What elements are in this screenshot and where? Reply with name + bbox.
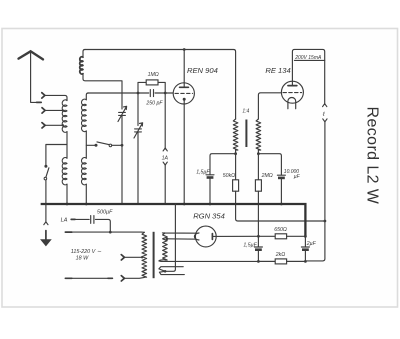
anode bar U3 (211, 234, 213, 240)
wire grid RC left riser (138, 82, 146, 93)
wire T1 secondary bottom to C5 (258, 154, 281, 175)
ground (45, 231, 47, 240)
svg-text:RE 134: RE 134 (265, 66, 290, 75)
resistor R5 2k bias (258, 260, 306, 262)
resistor R4 650 ohm (258, 235, 305, 237)
wire fuse to chassis rail (164, 165, 166, 204)
diode U3 RGN 354 rectifier (195, 226, 216, 247)
capacitor C3 250pF grid cap (150, 90, 153, 97)
wire HT secondary top to rectifier filament (162, 232, 199, 234)
wire R2 bottom to speaker return (236, 191, 326, 221)
grid coil L2 lower section (82, 158, 87, 185)
transformer T1 primary winding (233, 119, 238, 150)
resistor R2 50k (233, 180, 239, 191)
wire mains lead 1 (65, 231, 141, 233)
wire LA lead (71, 218, 89, 220)
transformer T2 primary winding (142, 232, 147, 277)
svg-text:1,5µF: 1,5µF (243, 242, 257, 248)
wire antenna coil mid-tap to band switch S1 (46, 145, 67, 167)
wire speaker return (306, 122, 325, 261)
wire U1 cathode to chassis rail (183, 99, 185, 204)
wire U2 anode to speaker feed (292, 49, 324, 103)
HT winding tap (166, 238, 169, 241)
svg-text:1:4: 1:4 (242, 109, 249, 115)
wire tap to rectifier filament (167, 238, 199, 240)
wire switch S2 to node (112, 144, 122, 146)
wire grid coil bottom to chassis rail (85, 184, 87, 204)
wire antenna coil middle (66, 132, 68, 159)
wire grid coil mid-tap to band switch S2 (86, 144, 96, 146)
wire U1 anode to HT rail (183, 50, 185, 88)
svg-text:Record L2 W: Record L2 W (364, 107, 381, 205)
transformer T1 core (245, 120, 247, 148)
variable capacitor C1 (reaction) (119, 112, 126, 115)
svg-text:RGN 354: RGN 354 (193, 212, 225, 221)
wire feedback coil top to anode rail (83, 50, 85, 57)
wire feedback coil bottom to reaction cap line (83, 74, 122, 109)
filament U3 (194, 233, 199, 240)
wire tap1 to antenna coil top (45, 95, 67, 100)
capacitor C5 10000pF electrolytic (277, 174, 285, 176)
band switch S2 (95, 144, 98, 147)
wire R3 bottom to B+ node (257, 191, 259, 236)
wire tap2 to primary bottom (124, 276, 144, 279)
wire C5 to chassis rail (280, 179, 282, 204)
svg-text:1MΩ: 1MΩ (148, 72, 159, 78)
wire HT anode rail (85, 50, 236, 120)
transformer T2 filament winding (159, 267, 183, 272)
earth connector break (44, 222, 48, 225)
wire filament centre tap to chassis (165, 204, 175, 271)
wire T1 primary bottom to C4 (210, 154, 236, 175)
wire tap2 to antenna coil (45, 109, 63, 111)
grid U1 (dashed) (175, 92, 193, 94)
wire tap3 to antenna coil (45, 124, 63, 126)
wire rail to earth (45, 204, 47, 222)
op-amp U1 REN 904 triode (173, 83, 194, 104)
anode bar U2 (288, 85, 297, 87)
anode bar U1 (180, 86, 189, 88)
resistor R1 1M grid leak (146, 80, 158, 85)
wire primary top (141, 231, 144, 233)
wire grid RC right riser (158, 82, 165, 93)
svg-text:250 pF: 250 pF (145, 100, 163, 106)
wire T1 primary bottom node (235, 150, 237, 180)
wire antenna coil bottom to chassis rail (66, 184, 68, 204)
wire C6 to mains lead (95, 219, 110, 232)
capacitor C6 500pF (91, 216, 94, 224)
svg-text:650Ω: 650Ω (274, 227, 287, 233)
antenna tap contact 1 (42, 93, 45, 98)
capacitor C8 2uF (304, 236, 306, 247)
svg-text:2MΩ: 2MΩ (261, 173, 273, 179)
transformer T2 primary tap arrow 1 (121, 255, 124, 260)
filament U2 (288, 97, 296, 108)
wire grid cap to tube grid (155, 92, 173, 94)
speaker jack L upper prong (323, 104, 327, 107)
wire HT secondary bottom to bias line (159, 260, 306, 262)
wire C2 to chassis rail (137, 132, 139, 204)
svg-text:2µF: 2µF (306, 241, 317, 247)
svg-text:50kΩ: 50kΩ (223, 173, 235, 179)
wire grid line node to tuning cap C2 (137, 93, 139, 126)
variable capacitor C2 (tuning) (135, 129, 142, 132)
svg-text:1A: 1A (162, 156, 169, 162)
svg-text:µF: µF (294, 174, 301, 180)
antenna coil L1 upper section (62, 100, 67, 132)
grid coil L2 upper section (82, 99, 87, 131)
antenna tap contact 3 (42, 123, 45, 128)
wire grid node down to fuse (164, 93, 166, 148)
wire grid coil middle (85, 131, 87, 158)
wire antenna lead (31, 52, 37, 102)
svg-text:2kΩ: 2kΩ (275, 252, 285, 258)
wire C4 to chassis rail (209, 179, 211, 204)
capacitor C4 1.5uF electrolytic (206, 174, 214, 176)
feedback coil L3 (80, 57, 83, 74)
cathode U1 (183, 98, 186, 101)
resistor R3 2M (255, 180, 261, 191)
band switch S1 (44, 165, 47, 168)
transformer T2 core (153, 232, 155, 278)
svg-text:500µF: 500µF (97, 210, 113, 216)
svg-text:18 W: 18 W (76, 255, 89, 261)
antenna coil L1 lower section (62, 158, 67, 185)
op-amp U2 RE 134 tetrode (281, 81, 303, 103)
wire switch S1 to chassis rail (45, 180, 47, 204)
wire C1 to switch node / chassis (121, 116, 123, 204)
transformer T1 secondary winding (256, 119, 261, 150)
wire chassis rail (42, 204, 306, 236)
wire T1 secondary bottom node (257, 150, 259, 180)
wire mains lead 2 (65, 277, 112, 279)
fuse F1 1A (163, 148, 167, 151)
svg-text:LA: LA (61, 217, 68, 223)
wire U3 anode to B+ node (212, 235, 258, 237)
wire grid line (88, 92, 149, 94)
grid U2 (dashed) (283, 92, 302, 94)
wire grid coil top to grid line (86, 93, 88, 100)
capacitor C7 1.5uF (257, 236, 259, 247)
wire tap1 to primary (124, 256, 141, 258)
svg-text:115-220 V ∼: 115-220 V ∼ (71, 249, 102, 255)
antenna tap contact 2 (42, 108, 45, 113)
antenna A (19, 51, 44, 59)
transformer T2 HT secondary winding (163, 233, 168, 260)
transformer T2 primary tap arrow 2 (121, 276, 124, 281)
speaker jack L lower prong (323, 119, 327, 122)
wire T1 secondary top to RE134 grid (258, 93, 281, 119)
svg-text:1,5µF: 1,5µF (196, 169, 210, 175)
svg-text:REN 904: REN 904 (187, 66, 218, 75)
